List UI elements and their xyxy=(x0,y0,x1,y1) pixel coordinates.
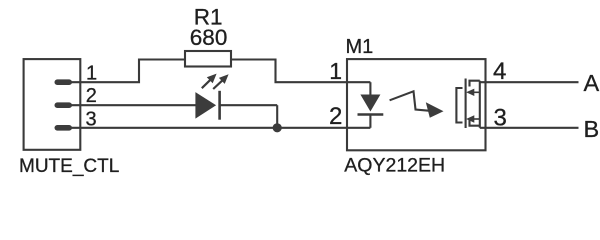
svg-text:2: 2 xyxy=(329,103,342,130)
svg-text:A: A xyxy=(584,70,600,96)
svg-text:4: 4 xyxy=(493,58,506,85)
svg-text:2: 2 xyxy=(86,85,97,107)
svg-text:AQY212EH: AQY212EH xyxy=(344,155,445,177)
svg-text:1: 1 xyxy=(86,63,97,85)
svg-text:M1: M1 xyxy=(346,36,374,58)
svg-text:680: 680 xyxy=(190,25,228,50)
svg-text:1: 1 xyxy=(329,58,342,84)
svg-text:B: B xyxy=(584,116,600,142)
svg-text:3: 3 xyxy=(86,108,97,130)
svg-text:MUTE_CTL: MUTE_CTL xyxy=(19,156,119,177)
svg-text:3: 3 xyxy=(494,105,507,132)
